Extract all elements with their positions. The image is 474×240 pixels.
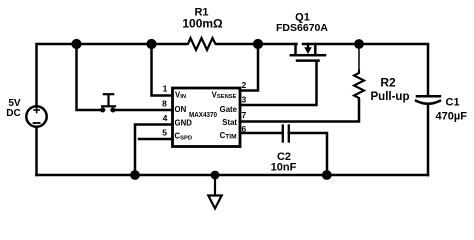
resistor R2 [354,49,364,101]
svg-text:Stat: Stat [222,118,237,127]
wire CSPD pin 5 stub (open) [139,138,173,141]
wire GND pin 4 to bottom rail [135,125,173,176]
label C2 [271,151,297,174]
svg-text:C1: C1 [446,97,460,109]
wire bottom rail [37,174,429,177]
wire C1 bottom to rail [427,105,430,176]
op-amp U1 IC box MAX4370 [173,88,241,147]
wire Gate pin 3 to Q1 gate [240,61,317,105]
voltage source 5V DC [26,106,46,126]
svg-text:5: 5 [162,128,167,138]
svg-text:7: 7 [242,110,247,120]
pushbutton switch [101,94,115,112]
wire VIN branch pin 1 [152,44,173,96]
node dot top rail VSENSE branch [253,39,263,49]
label R1 [182,7,223,31]
capacitor C2 [283,126,289,142]
svg-text:MAX4370: MAX4370 [189,112,217,119]
wire C2 to bottom rail [289,133,327,175]
svg-text:6: 6 [242,124,247,134]
svg-text:Gate: Gate [220,105,238,114]
node dot bottom rail C2 branch [322,170,332,180]
svg-text:Pull-up: Pull-up [371,91,410,103]
svg-text:R2: R2 [380,76,396,90]
svg-text:DC: DC [6,108,20,119]
node dot top rail R2 branch [354,39,364,49]
wire Stat pin 7 to R2 bottom [240,100,359,122]
resistor R1 [185,38,218,50]
svg-text:FDS6670A: FDS6670A [276,22,328,34]
label 5V DC [6,98,21,119]
svg-text:CTIM: CTIM [220,131,237,140]
svg-text:GND: GND [175,119,193,128]
capacitor C1 [416,96,440,104]
node dot bottom rail GND branch [130,170,140,180]
wire CTIM pin 6 to C2 [240,132,282,135]
node dot bottom rail ground symbol [211,171,220,180]
label R2 [371,76,410,103]
label C1 [436,97,468,123]
svg-text:2: 2 [242,80,247,90]
svg-text:4: 4 [163,113,168,123]
svg-text:470µF: 470µF [436,111,468,123]
svg-text:1: 1 [163,83,168,93]
node dot top rail VIN branch [146,39,156,49]
transistor Q1 (N-MOSFET FDS6670A) [291,44,325,61]
wire pushbutton to ON pin 8 [112,109,173,112]
wire left rail (5V- to bottom) [35,127,38,175]
wire VSENSE pin 2 [240,44,258,91]
svg-text:10nF: 10nF [271,161,297,173]
wire top rail R1 to Q1 drain [218,43,297,46]
svg-text:100mΩ: 100mΩ [182,17,223,31]
wire ON branch from top rail down [77,44,105,110]
label Q1 [276,12,328,35]
svg-text:8: 8 [162,98,167,108]
wire top rail Q1 source to C1 corner [303,44,428,96]
Q1 body arrow [304,47,312,54]
svg-text:3: 3 [242,95,247,105]
ground [208,175,221,209]
wire top rail left (5V+ to R1) [37,44,186,107]
node dot top rail ON branch [71,39,81,49]
svg-text:ON: ON [175,105,187,114]
